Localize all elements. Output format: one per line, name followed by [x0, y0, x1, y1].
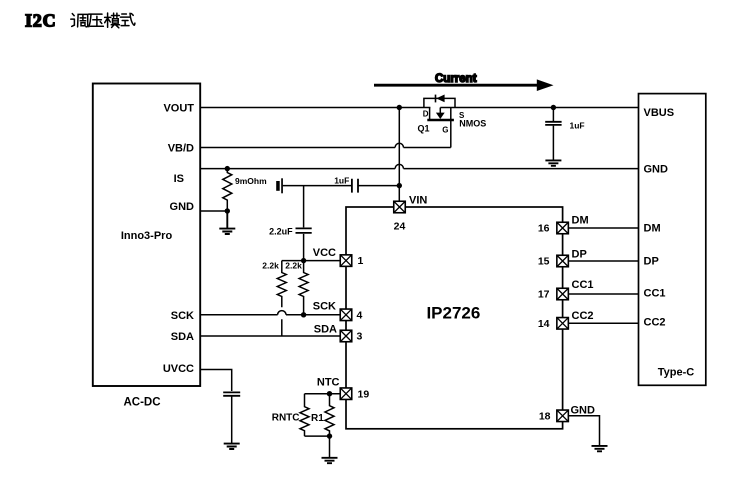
wire UVCC cap to ground	[231, 397, 233, 444]
node NTC dot	[327, 391, 332, 396]
svg-text:SCK: SCK	[313, 300, 336, 312]
wire R1 to ground	[329, 436, 331, 457]
resistor RNTC	[300, 394, 309, 436]
svg-text:GND: GND	[170, 201, 195, 213]
wire CC2 net	[568, 322, 638, 324]
svg-text:GND: GND	[571, 405, 596, 417]
wire VIN vertical drop	[398, 108, 400, 202]
svg-text:CC2: CC2	[644, 317, 666, 329]
pin box VCC 1	[340, 255, 352, 267]
svg-text:Current: Current	[435, 73, 477, 85]
ground below R1	[322, 458, 338, 463]
svg-text:I2C: I2C	[25, 11, 56, 31]
wire bottom bracket RNTC/R1	[305, 435, 330, 437]
svg-text:GND: GND	[644, 164, 669, 176]
pin box NTC 19	[340, 388, 352, 400]
transistor Q1 NMOS: body arrow	[439, 108, 441, 114]
svg-text:SCK: SCK	[171, 310, 194, 322]
svg-text:24: 24	[394, 220, 406, 232]
svg-text:9mOhm: 9mOhm	[235, 176, 267, 186]
svg-text:CC1: CC1	[572, 279, 594, 291]
wire VCC net	[282, 260, 340, 262]
svg-text:IP2726: IP2726	[426, 304, 480, 323]
svg-text:2.2uF: 2.2uF	[269, 227, 293, 237]
svg-text:D: D	[423, 109, 429, 118]
wire hop SCK over SDA pull-up	[278, 311, 286, 315]
pin box SCK 4	[340, 309, 352, 321]
node VIN filter dot	[397, 183, 402, 188]
svg-text:2.2k: 2.2k	[262, 261, 279, 271]
block Type-C connector	[639, 94, 706, 386]
current flow arrow	[374, 84, 538, 87]
ground below output 1uF	[545, 160, 561, 165]
pin box CC2 14	[557, 318, 569, 330]
svg-text:G: G	[442, 125, 448, 134]
block Inno3-Pro (AC-DC source)	[93, 84, 200, 387]
pin box CC1 17	[557, 288, 569, 300]
resistor R1	[325, 394, 334, 436]
svg-text:SDA: SDA	[171, 331, 194, 343]
svg-text:DM: DM	[644, 223, 661, 235]
node GND dot	[225, 208, 230, 213]
svg-text:CC2: CC2	[572, 310, 594, 322]
title CJK 模	[105, 13, 120, 28]
svg-text:CC1: CC1	[644, 288, 666, 300]
pin box DM 16	[557, 222, 569, 234]
diode body of Q1: cathode bar	[435, 95, 437, 103]
svg-text:1: 1	[358, 255, 364, 267]
block IP2726	[346, 207, 563, 429]
wire GND pin 18	[568, 416, 599, 446]
svg-text:Inno3-Pro: Inno3-Pro	[121, 230, 173, 242]
capacitor 1uF output wire	[552, 108, 554, 160]
svg-text:RNTC: RNTC	[272, 413, 300, 424]
title I2C	[25, 11, 56, 31]
title CJK 调	[71, 14, 88, 27]
svg-text:15: 15	[538, 256, 550, 268]
transistor Q1 NMOS: channel bar	[427, 119, 454, 122]
resistor R 9mOhm	[223, 169, 232, 212]
svg-text:UVCC: UVCC	[163, 363, 194, 375]
wire SCK net	[200, 314, 340, 316]
pin box DP 15	[557, 255, 569, 267]
capacitor 2.2uF branch wire	[303, 186, 305, 261]
title CJK 压	[89, 14, 104, 27]
svg-text:VIN: VIN	[409, 195, 427, 207]
svg-text:14: 14	[538, 318, 550, 330]
svg-text:R1: R1	[311, 413, 324, 424]
svg-text:DP: DP	[644, 256, 659, 268]
svg-text:VB/D: VB/D	[168, 143, 194, 155]
svg-text:18: 18	[539, 411, 551, 423]
capacitor 1uF output plates	[545, 122, 561, 125]
wire DP net	[568, 260, 638, 262]
svg-text:VOUT: VOUT	[163, 103, 194, 115]
wire VB/D net to Q1 gate	[200, 147, 451, 149]
diode body of Q1: loop	[424, 98, 455, 107]
wire GND pin of left block	[200, 210, 227, 212]
node VBUS cap junction dot	[551, 105, 556, 110]
wire VOUT/VBUS net (Q1 source to Type-C VBUS)	[440, 107, 638, 109]
svg-text:DM: DM	[572, 215, 589, 227]
svg-text:VCC: VCC	[313, 247, 336, 259]
svg-text:17: 17	[538, 289, 550, 301]
capacitor 1uF series (vertical plates)	[352, 179, 358, 193]
wire DM net	[568, 227, 638, 229]
wire NTC net (pin 19)	[305, 393, 341, 395]
svg-text:4: 4	[357, 310, 363, 322]
capacitor UVCC bypass plates	[223, 392, 240, 395]
svg-text:DP: DP	[572, 248, 587, 260]
svg-text:2.2k: 2.2k	[285, 261, 302, 271]
transistor Q1 NMOS: drain stub	[429, 108, 431, 121]
node VCC dot	[301, 258, 306, 263]
transistor Q1 NMOS: source stub and gate drop	[450, 108, 452, 148]
wire VOUT net (left block to Q1 drain)	[200, 107, 430, 109]
pin box VIN 24	[394, 201, 406, 213]
pin box SDA 3	[340, 330, 352, 342]
svg-text:NMOS: NMOS	[459, 118, 486, 128]
capacitor C2 input (polarized plate symbol)	[276, 181, 280, 191]
wire hop GND over VIN vertical	[395, 164, 403, 168]
node IS sense dot	[225, 166, 230, 171]
resistor R 2.2k SDA pull-up (left)	[277, 261, 286, 336]
wire CC1 net	[568, 293, 638, 295]
pin box GND 18	[557, 410, 569, 422]
svg-text:VBUS: VBUS	[644, 107, 675, 119]
title CJK 式	[120, 13, 134, 25]
diode body of Q1: triangle	[436, 95, 444, 103]
ground below pin 18	[592, 446, 608, 451]
wire UVCC net	[200, 370, 232, 392]
svg-text:3: 3	[357, 331, 363, 343]
node VOUT junction dot	[397, 105, 402, 110]
svg-text:1uF: 1uF	[570, 121, 585, 131]
wire hop VB/D over VIN vertical	[395, 143, 403, 147]
svg-text:AC-DC: AC-DC	[123, 397, 160, 409]
svg-text:19: 19	[358, 388, 370, 400]
node RNTC/R1 bottom dot	[327, 433, 332, 438]
ground below UVCC cap	[224, 444, 240, 449]
capacitor 2.2uF plates	[296, 228, 312, 233]
svg-text:Q1: Q1	[418, 124, 430, 134]
resistor R 2.2k SCK pull-up (right)	[299, 261, 308, 315]
svg-text:NTC: NTC	[317, 377, 340, 389]
wire 1uF line (cap C2 to VIN vertical)	[283, 185, 400, 187]
node SCK pull-up dot	[301, 312, 306, 317]
ground below 9mOhm	[219, 211, 235, 234]
svg-text:16: 16	[538, 223, 550, 235]
svg-text:1uF: 1uF	[334, 175, 349, 185]
svg-text:IS: IS	[174, 173, 184, 185]
wire IS / GND net (left block IS to Type-C GND)	[200, 168, 639, 170]
svg-text:SDA: SDA	[314, 323, 337, 335]
wire SDA net	[200, 335, 340, 337]
svg-text:Type-C: Type-C	[658, 367, 695, 379]
